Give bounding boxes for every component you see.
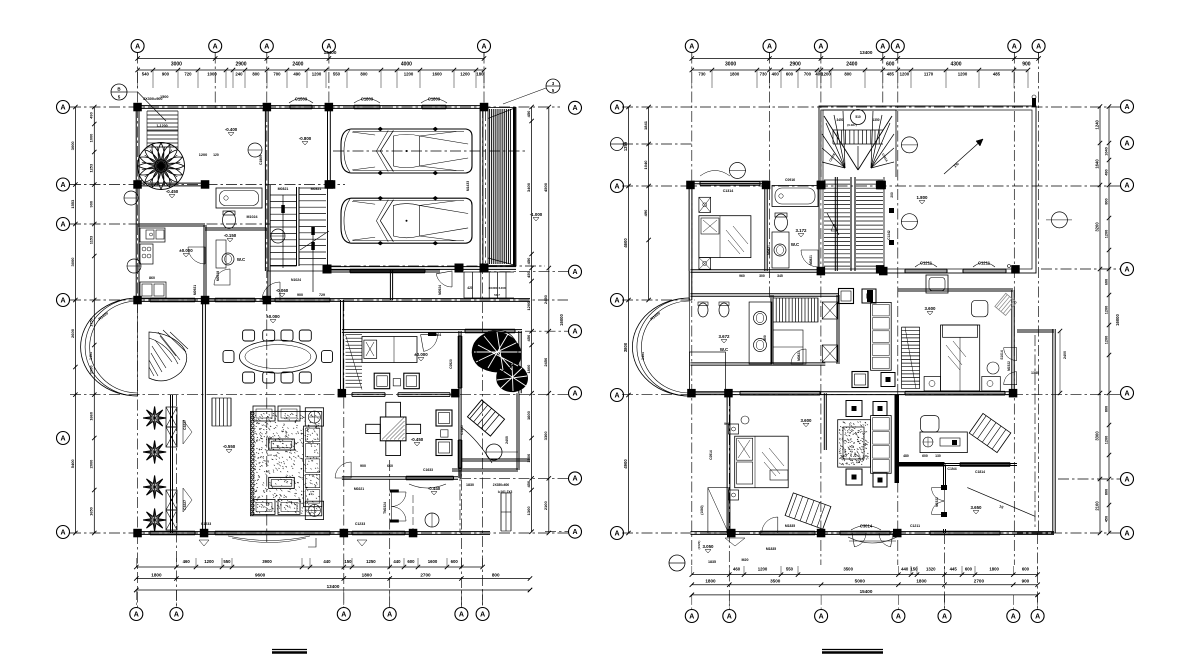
- svg-text:1040: 1040: [643, 160, 648, 170]
- svg-text:1200: 1200: [460, 72, 470, 77]
- svg-text:2450: 2450: [543, 357, 548, 367]
- svg-text:800: 800: [844, 72, 852, 77]
- svg-text:3300: 3300: [543, 431, 548, 441]
- svg-text:A: A: [942, 613, 947, 620]
- svg-text:4300: 4300: [950, 62, 961, 68]
- svg-text:900: 900: [297, 293, 303, 297]
- svg-text:460: 460: [733, 567, 741, 572]
- svg-text:1200: 1200: [958, 72, 968, 77]
- svg-text:A: A: [572, 529, 577, 536]
- svg-text:A: A: [572, 269, 577, 276]
- svg-text:A: A: [1124, 476, 1129, 483]
- svg-text:400: 400: [772, 72, 780, 77]
- svg-text:1240: 1240: [1094, 119, 1099, 129]
- svg-text:900: 900: [724, 422, 730, 426]
- svg-text:490: 490: [1104, 169, 1108, 175]
- svg-text:1451: 1451: [89, 352, 93, 360]
- svg-text:1200: 1200: [199, 153, 207, 157]
- svg-text:C0914: C0914: [709, 450, 713, 460]
- svg-text:A: A: [60, 182, 65, 189]
- svg-text:1600: 1600: [428, 559, 438, 564]
- svg-text:C1211: C1211: [978, 260, 991, 265]
- svg-text:C1233: C1233: [201, 522, 211, 526]
- svg-text:5400: 5400: [70, 459, 75, 469]
- svg-text:800: 800: [492, 573, 500, 578]
- svg-text:(1080): (1080): [700, 505, 704, 514]
- svg-text:450: 450: [526, 257, 531, 264]
- svg-text:3300: 3300: [1094, 431, 1099, 441]
- svg-text:M0821: M0821: [278, 187, 289, 191]
- svg-text:A: A: [727, 613, 732, 620]
- svg-text:A: A: [572, 476, 577, 483]
- svg-text:730: 730: [760, 72, 768, 77]
- svg-text:3000: 3000: [70, 257, 75, 267]
- svg-text:3.672: 3.672: [719, 334, 731, 339]
- svg-text:2450: 2450: [543, 294, 548, 304]
- svg-text:800: 800: [360, 72, 368, 77]
- svg-text:440: 440: [901, 567, 909, 572]
- svg-text:M0824: M0824: [431, 333, 441, 337]
- svg-text:550: 550: [223, 559, 231, 564]
- svg-text:13400: 13400: [324, 50, 337, 55]
- svg-text:800: 800: [763, 335, 767, 341]
- svg-text:3.050: 3.050: [703, 544, 715, 549]
- svg-text:150: 150: [344, 559, 352, 564]
- svg-text:M1835: M1835: [766, 547, 776, 551]
- svg-text:±0.000: ±0.000: [266, 314, 280, 319]
- svg-text:1253: 1253: [89, 163, 94, 172]
- svg-text:13400: 13400: [860, 50, 873, 55]
- svg-text:1200: 1200: [900, 72, 910, 77]
- svg-text:C1509: C1509: [295, 96, 308, 101]
- svg-text:A: A: [341, 611, 346, 618]
- svg-text:A: A: [896, 613, 901, 620]
- svg-text:W.C: W.C: [791, 242, 800, 247]
- svg-text:600: 600: [886, 62, 895, 68]
- svg-text:4500: 4500: [543, 182, 548, 192]
- svg-text:-0.800: -0.800: [299, 136, 312, 141]
- svg-text:A: A: [614, 183, 619, 190]
- svg-text:1650: 1650: [89, 507, 94, 516]
- svg-text:M0621: M0621: [767, 245, 771, 255]
- svg-text:C0920: C0920: [449, 359, 453, 369]
- svg-text:1800: 1800: [916, 579, 927, 584]
- svg-text:1800: 1800: [989, 567, 999, 572]
- svg-text:A: A: [689, 43, 694, 50]
- svg-text:3500: 3500: [843, 567, 853, 572]
- svg-text:A: A: [614, 530, 619, 537]
- svg-text:2700: 2700: [974, 579, 985, 584]
- svg-text:1800: 1800: [705, 579, 716, 584]
- svg-text:I=161.2X3: I=161.2X3: [498, 490, 513, 494]
- svg-text:2900: 2900: [235, 62, 246, 68]
- svg-text:M0821: M0821: [809, 255, 813, 265]
- svg-text:C3227: C3227: [183, 500, 187, 510]
- svg-text:A: A: [60, 297, 65, 304]
- svg-text:1600: 1600: [432, 72, 442, 77]
- svg-text:1000: 1000: [207, 72, 217, 77]
- svg-text:2900: 2900: [790, 62, 801, 68]
- svg-text:M0221: M0221: [354, 487, 364, 491]
- svg-text:180: 180: [476, 72, 484, 77]
- svg-text:1800: 1800: [730, 72, 740, 77]
- svg-text:550: 550: [333, 72, 341, 77]
- svg-text:485: 485: [993, 72, 1001, 77]
- svg-text:600: 600: [1104, 279, 1108, 285]
- svg-text:53.7: 53.7: [494, 293, 500, 297]
- svg-text:550: 550: [786, 567, 794, 572]
- svg-text:3X300=1400: 3X300=1400: [488, 286, 505, 290]
- svg-text:1830: 1830: [466, 483, 474, 487]
- svg-text:-0.150: -0.150: [224, 233, 237, 238]
- svg-text:C1233: C1233: [355, 522, 365, 526]
- svg-text:-0.440: -0.440: [428, 486, 441, 491]
- svg-text:3.600: 3.600: [925, 306, 937, 311]
- svg-text:460: 460: [183, 559, 191, 564]
- svg-text:A: A: [1124, 390, 1129, 397]
- svg-text:M20: M20: [742, 558, 749, 562]
- svg-text:450: 450: [526, 334, 531, 341]
- svg-text:960: 960: [739, 274, 745, 278]
- svg-text:600: 600: [922, 454, 928, 458]
- svg-text:1200: 1200: [1104, 230, 1108, 238]
- svg-text:1200: 1200: [1104, 436, 1108, 444]
- svg-text:M0921: M0921: [193, 285, 197, 295]
- svg-text:(1020): (1020): [697, 541, 701, 550]
- svg-text:1841: 1841: [643, 120, 648, 130]
- svg-text:420: 420: [467, 286, 473, 290]
- svg-text:1800: 1800: [151, 573, 162, 578]
- svg-text:510: 510: [855, 115, 861, 119]
- svg-text:4600: 4600: [623, 238, 628, 248]
- svg-text:W.C: W.C: [720, 347, 729, 352]
- svg-text:700: 700: [273, 72, 281, 77]
- svg-text:A: A: [60, 221, 65, 228]
- svg-text:3800: 3800: [623, 342, 628, 352]
- svg-text:A: A: [264, 43, 269, 50]
- svg-text:-1.000: -1.000: [530, 212, 543, 217]
- svg-text:660: 660: [387, 464, 393, 468]
- svg-text:3200: 3200: [1094, 222, 1099, 232]
- svg-text:-0.060: -0.060: [276, 288, 289, 293]
- svg-text:1350: 1350: [872, 118, 879, 122]
- svg-text:C1211: C1211: [920, 260, 933, 265]
- svg-text:C1314: C1314: [723, 189, 734, 193]
- svg-text:15400: 15400: [860, 589, 873, 594]
- svg-text:C1809: C1809: [428, 96, 441, 101]
- svg-text:800: 800: [1104, 198, 1108, 204]
- svg-text:S1014: S1014: [1000, 350, 1004, 359]
- svg-text:900: 900: [1022, 579, 1030, 584]
- svg-text:A: A: [60, 435, 65, 442]
- svg-text:860: 860: [149, 276, 155, 280]
- svg-text:16000: 16000: [559, 314, 564, 326]
- svg-text:C1633: C1633: [423, 468, 433, 472]
- svg-text:1.800: 1.800: [917, 195, 929, 200]
- svg-text:A: A: [60, 104, 65, 111]
- svg-text:1250: 1250: [366, 559, 376, 564]
- svg-text:1200: 1200: [204, 559, 214, 564]
- svg-text:-0.550: -0.550: [223, 444, 236, 449]
- svg-text:-0.400: -0.400: [225, 127, 238, 132]
- svg-text:450: 450: [526, 110, 531, 117]
- svg-text:A: A: [1124, 104, 1129, 111]
- svg-text:1-1200: 1-1200: [156, 124, 167, 128]
- svg-text:M1433: M1433: [466, 181, 470, 191]
- svg-text:A: A: [689, 613, 694, 620]
- svg-text:M0821: M0821: [797, 351, 801, 361]
- svg-text:1200: 1200: [1104, 336, 1108, 344]
- svg-text:A: A: [387, 611, 392, 618]
- svg-text:A: A: [614, 104, 619, 111]
- svg-text:A: A: [818, 43, 823, 50]
- svg-text:A: A: [481, 43, 486, 50]
- svg-text:C0916: C0916: [785, 178, 795, 182]
- svg-text:3000: 3000: [70, 141, 75, 151]
- svg-text:M1522: M1522: [935, 497, 939, 507]
- svg-text:C1211: C1211: [910, 524, 920, 528]
- svg-text:120: 120: [213, 153, 219, 157]
- svg-text:4000: 4000: [401, 62, 412, 68]
- svg-text:3400: 3400: [526, 182, 531, 192]
- svg-text:600: 600: [965, 567, 973, 572]
- svg-text:2400: 2400: [1063, 351, 1067, 359]
- svg-text:1320: 1320: [926, 567, 936, 572]
- svg-text:300: 300: [759, 274, 765, 278]
- svg-text:1200: 1200: [758, 567, 768, 572]
- svg-text:W.C: W.C: [237, 257, 246, 262]
- svg-text:2100: 2100: [543, 500, 548, 510]
- svg-text:M1522: M1522: [1007, 361, 1011, 371]
- svg-text:2700: 2700: [420, 573, 431, 578]
- svg-text:480: 480: [903, 454, 909, 458]
- svg-text:2400: 2400: [846, 62, 857, 68]
- svg-text:720: 720: [184, 72, 192, 77]
- svg-text:±0.000: ±0.000: [179, 248, 193, 253]
- svg-text:1153: 1153: [89, 235, 94, 244]
- svg-text:1451: 1451: [641, 352, 645, 360]
- svg-text:A: A: [1124, 182, 1129, 189]
- svg-text:1553: 1553: [70, 199, 75, 209]
- svg-text:4900: 4900: [623, 459, 628, 469]
- svg-text:C1809: C1809: [361, 96, 374, 101]
- svg-text:16000: 16000: [1115, 314, 1120, 326]
- svg-text:A: A: [880, 43, 885, 50]
- svg-text:M0821: M0821: [311, 187, 322, 191]
- svg-text:600: 600: [1022, 567, 1030, 572]
- svg-text:130: 130: [935, 454, 941, 458]
- svg-text:485: 485: [887, 72, 895, 77]
- svg-text:A: A: [1012, 43, 1017, 50]
- svg-text:A: A: [614, 297, 619, 304]
- svg-text:A: A: [1011, 613, 1016, 620]
- svg-text:3000: 3000: [725, 62, 736, 68]
- svg-text:M1024: M1024: [247, 215, 258, 219]
- svg-text:1200: 1200: [821, 72, 831, 77]
- svg-text:1800: 1800: [362, 573, 373, 578]
- svg-text:1200: 1200: [312, 72, 322, 77]
- svg-text:A: A: [614, 392, 619, 399]
- svg-text:2400: 2400: [505, 436, 509, 444]
- svg-text:700: 700: [804, 72, 812, 77]
- svg-text:±0.000: ±0.000: [414, 352, 428, 357]
- svg-text:730: 730: [698, 72, 706, 77]
- svg-text:345: 345: [777, 274, 783, 278]
- svg-text:800: 800: [252, 72, 260, 77]
- svg-text:1200: 1200: [404, 72, 414, 77]
- svg-text:A: A: [895, 43, 900, 50]
- svg-text:C1N4: C1N4: [947, 467, 956, 471]
- svg-text:900: 900: [360, 464, 366, 468]
- svg-text:2100: 2100: [1094, 501, 1099, 511]
- svg-text:1500: 1500: [160, 95, 168, 99]
- svg-text:490: 490: [643, 209, 648, 216]
- svg-text:2600: 2600: [70, 328, 75, 338]
- svg-text:A: A: [60, 529, 65, 536]
- svg-text:C3014: C3014: [860, 523, 873, 528]
- svg-text:800: 800: [1104, 489, 1108, 495]
- svg-text:3000: 3000: [171, 62, 182, 68]
- svg-text:A: A: [572, 329, 577, 336]
- svg-text:C1242: C1242: [887, 230, 891, 240]
- svg-text:1660: 1660: [89, 412, 94, 421]
- svg-text:900: 900: [1022, 62, 1031, 68]
- svg-text:3.650: 3.650: [971, 505, 983, 510]
- svg-text:A: A: [134, 611, 139, 618]
- svg-text:1200: 1200: [526, 301, 531, 311]
- svg-text:450: 450: [1104, 516, 1108, 522]
- svg-text:N1024: N1024: [291, 278, 301, 282]
- svg-text:900: 900: [162, 72, 170, 77]
- svg-text:1800: 1800: [526, 364, 531, 374]
- svg-text:A: A: [174, 611, 179, 618]
- svg-text:600: 600: [407, 559, 415, 564]
- svg-text:3.600: 3.600: [801, 418, 813, 423]
- svg-text:A: A: [1124, 530, 1129, 537]
- svg-text:200: 200: [890, 192, 894, 198]
- svg-text:13400: 13400: [327, 584, 340, 589]
- svg-text:440: 440: [323, 559, 331, 564]
- svg-text:3500: 3500: [770, 579, 781, 584]
- svg-text:A: A: [1124, 140, 1129, 147]
- svg-text:1170: 1170: [924, 72, 934, 77]
- svg-text:M1835: M1835: [785, 524, 795, 528]
- svg-text:2400: 2400: [292, 62, 303, 68]
- svg-text:A: A: [819, 613, 824, 620]
- svg-text:C1809: C1809: [259, 155, 263, 165]
- svg-text:440: 440: [393, 559, 401, 564]
- svg-text:A: A: [767, 43, 772, 50]
- svg-text:900: 900: [89, 201, 94, 208]
- svg-text:A: A: [213, 43, 218, 50]
- svg-text:450: 450: [526, 480, 531, 487]
- svg-text:1640: 1640: [1094, 159, 1099, 169]
- svg-text:1750: 1750: [89, 318, 94, 327]
- svg-text:A: A: [1035, 613, 1040, 620]
- svg-text:600: 600: [786, 72, 794, 77]
- svg-text:-0.450: -0.450: [166, 189, 179, 194]
- svg-text:729: 729: [319, 293, 325, 297]
- svg-text:3900: 3900: [262, 559, 272, 564]
- svg-text:A: A: [459, 611, 464, 618]
- svg-text:-0.450: -0.450: [411, 437, 424, 442]
- svg-text:C1814: C1814: [975, 470, 985, 474]
- svg-text:2X350=600: 2X350=600: [493, 483, 510, 487]
- svg-text:3.172: 3.172: [796, 228, 808, 233]
- svg-text:A: A: [572, 105, 577, 112]
- svg-text:2000: 2000: [89, 460, 94, 469]
- svg-text:240: 240: [235, 72, 243, 77]
- svg-text:TM1524: TM1524: [383, 502, 387, 514]
- svg-text:C1435: C1435: [460, 425, 464, 435]
- svg-text:800: 800: [1104, 406, 1108, 412]
- svg-text:A: A: [135, 43, 140, 50]
- svg-text:A: A: [480, 611, 485, 618]
- svg-text:1835: 1835: [708, 560, 716, 564]
- svg-text:3450: 3450: [836, 118, 843, 122]
- svg-text:A: A: [1124, 266, 1129, 273]
- svg-text:A: A: [1036, 43, 1041, 50]
- svg-text:540: 540: [142, 72, 150, 77]
- svg-text:5000: 5000: [855, 579, 866, 584]
- svg-text:1000: 1000: [89, 134, 94, 143]
- svg-text:1200: 1200: [1104, 306, 1108, 314]
- svg-text:1300: 1300: [526, 506, 531, 516]
- svg-text:1040: 1040: [1104, 147, 1108, 155]
- svg-text:1600: 1600: [526, 410, 531, 420]
- svg-text:600: 600: [451, 559, 459, 564]
- svg-text:490: 490: [89, 112, 94, 119]
- svg-text:A: A: [572, 391, 577, 398]
- svg-text:9600: 9600: [255, 573, 266, 578]
- svg-text:490: 490: [293, 72, 301, 77]
- svg-text:M0924: M0924: [438, 285, 442, 295]
- svg-text:445: 445: [950, 567, 958, 572]
